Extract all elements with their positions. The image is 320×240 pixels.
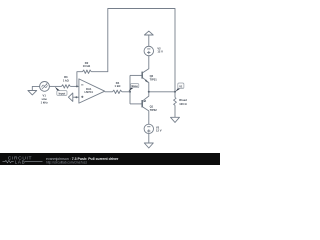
svg-text:Input: Input — [59, 91, 66, 95]
svg-text:http://circuitlab.com/cma7usz: http://circuitlab.com/cma7usz — [46, 160, 88, 164]
svg-text:sine: sine — [42, 97, 48, 101]
svg-text:100 Ω: 100 Ω — [179, 102, 187, 106]
svg-text:12 V: 12 V — [157, 50, 163, 54]
svg-text:Q1: Q1 — [150, 104, 154, 108]
svg-text:1 kΩ: 1 kΩ — [63, 78, 70, 82]
svg-text:V1: V1 — [179, 84, 183, 88]
svg-text:1 kΩ: 1 kΩ — [115, 84, 122, 88]
svg-text:1 kHz: 1 kHz — [41, 100, 49, 104]
svg-text:TIP32: TIP32 — [150, 108, 158, 112]
svg-text:10 kΩ: 10 kΩ — [83, 64, 91, 68]
svg-text:Rload: Rload — [179, 98, 187, 102]
svg-text:LAB: LAB — [15, 159, 26, 164]
svg-text:Base: Base — [131, 84, 138, 88]
svg-text:12 V: 12 V — [156, 129, 162, 133]
svg-text:TIP31: TIP31 — [150, 77, 158, 81]
svg-text:LM741: LM741 — [85, 90, 94, 94]
svg-text:V1: V1 — [43, 93, 47, 97]
